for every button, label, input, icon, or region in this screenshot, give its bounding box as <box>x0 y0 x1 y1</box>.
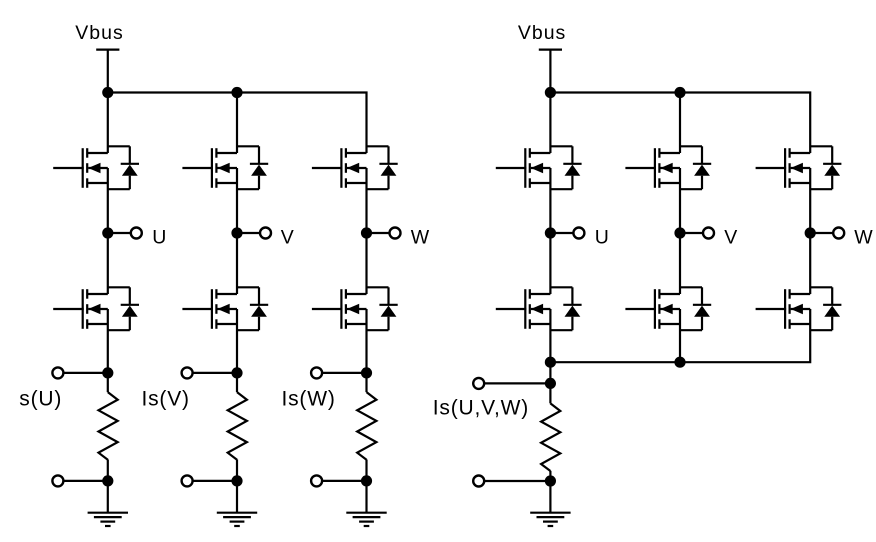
svg-text:Vbus: Vbus <box>518 22 566 44</box>
svg-text:Vbus: Vbus <box>75 22 123 44</box>
svg-text:V: V <box>724 227 737 249</box>
svg-text:W: W <box>854 227 873 249</box>
svg-text:V: V <box>281 227 294 249</box>
svg-text:Is(V): Is(V) <box>142 388 190 411</box>
svg-text:U: U <box>595 227 609 249</box>
svg-text:U: U <box>152 227 166 249</box>
svg-text:s(U): s(U) <box>19 388 62 411</box>
svg-text:Is(W): Is(W) <box>282 388 336 411</box>
svg-text:W: W <box>411 227 430 249</box>
svg-text:Is(U,V,W): Is(U,V,W) <box>433 397 529 420</box>
